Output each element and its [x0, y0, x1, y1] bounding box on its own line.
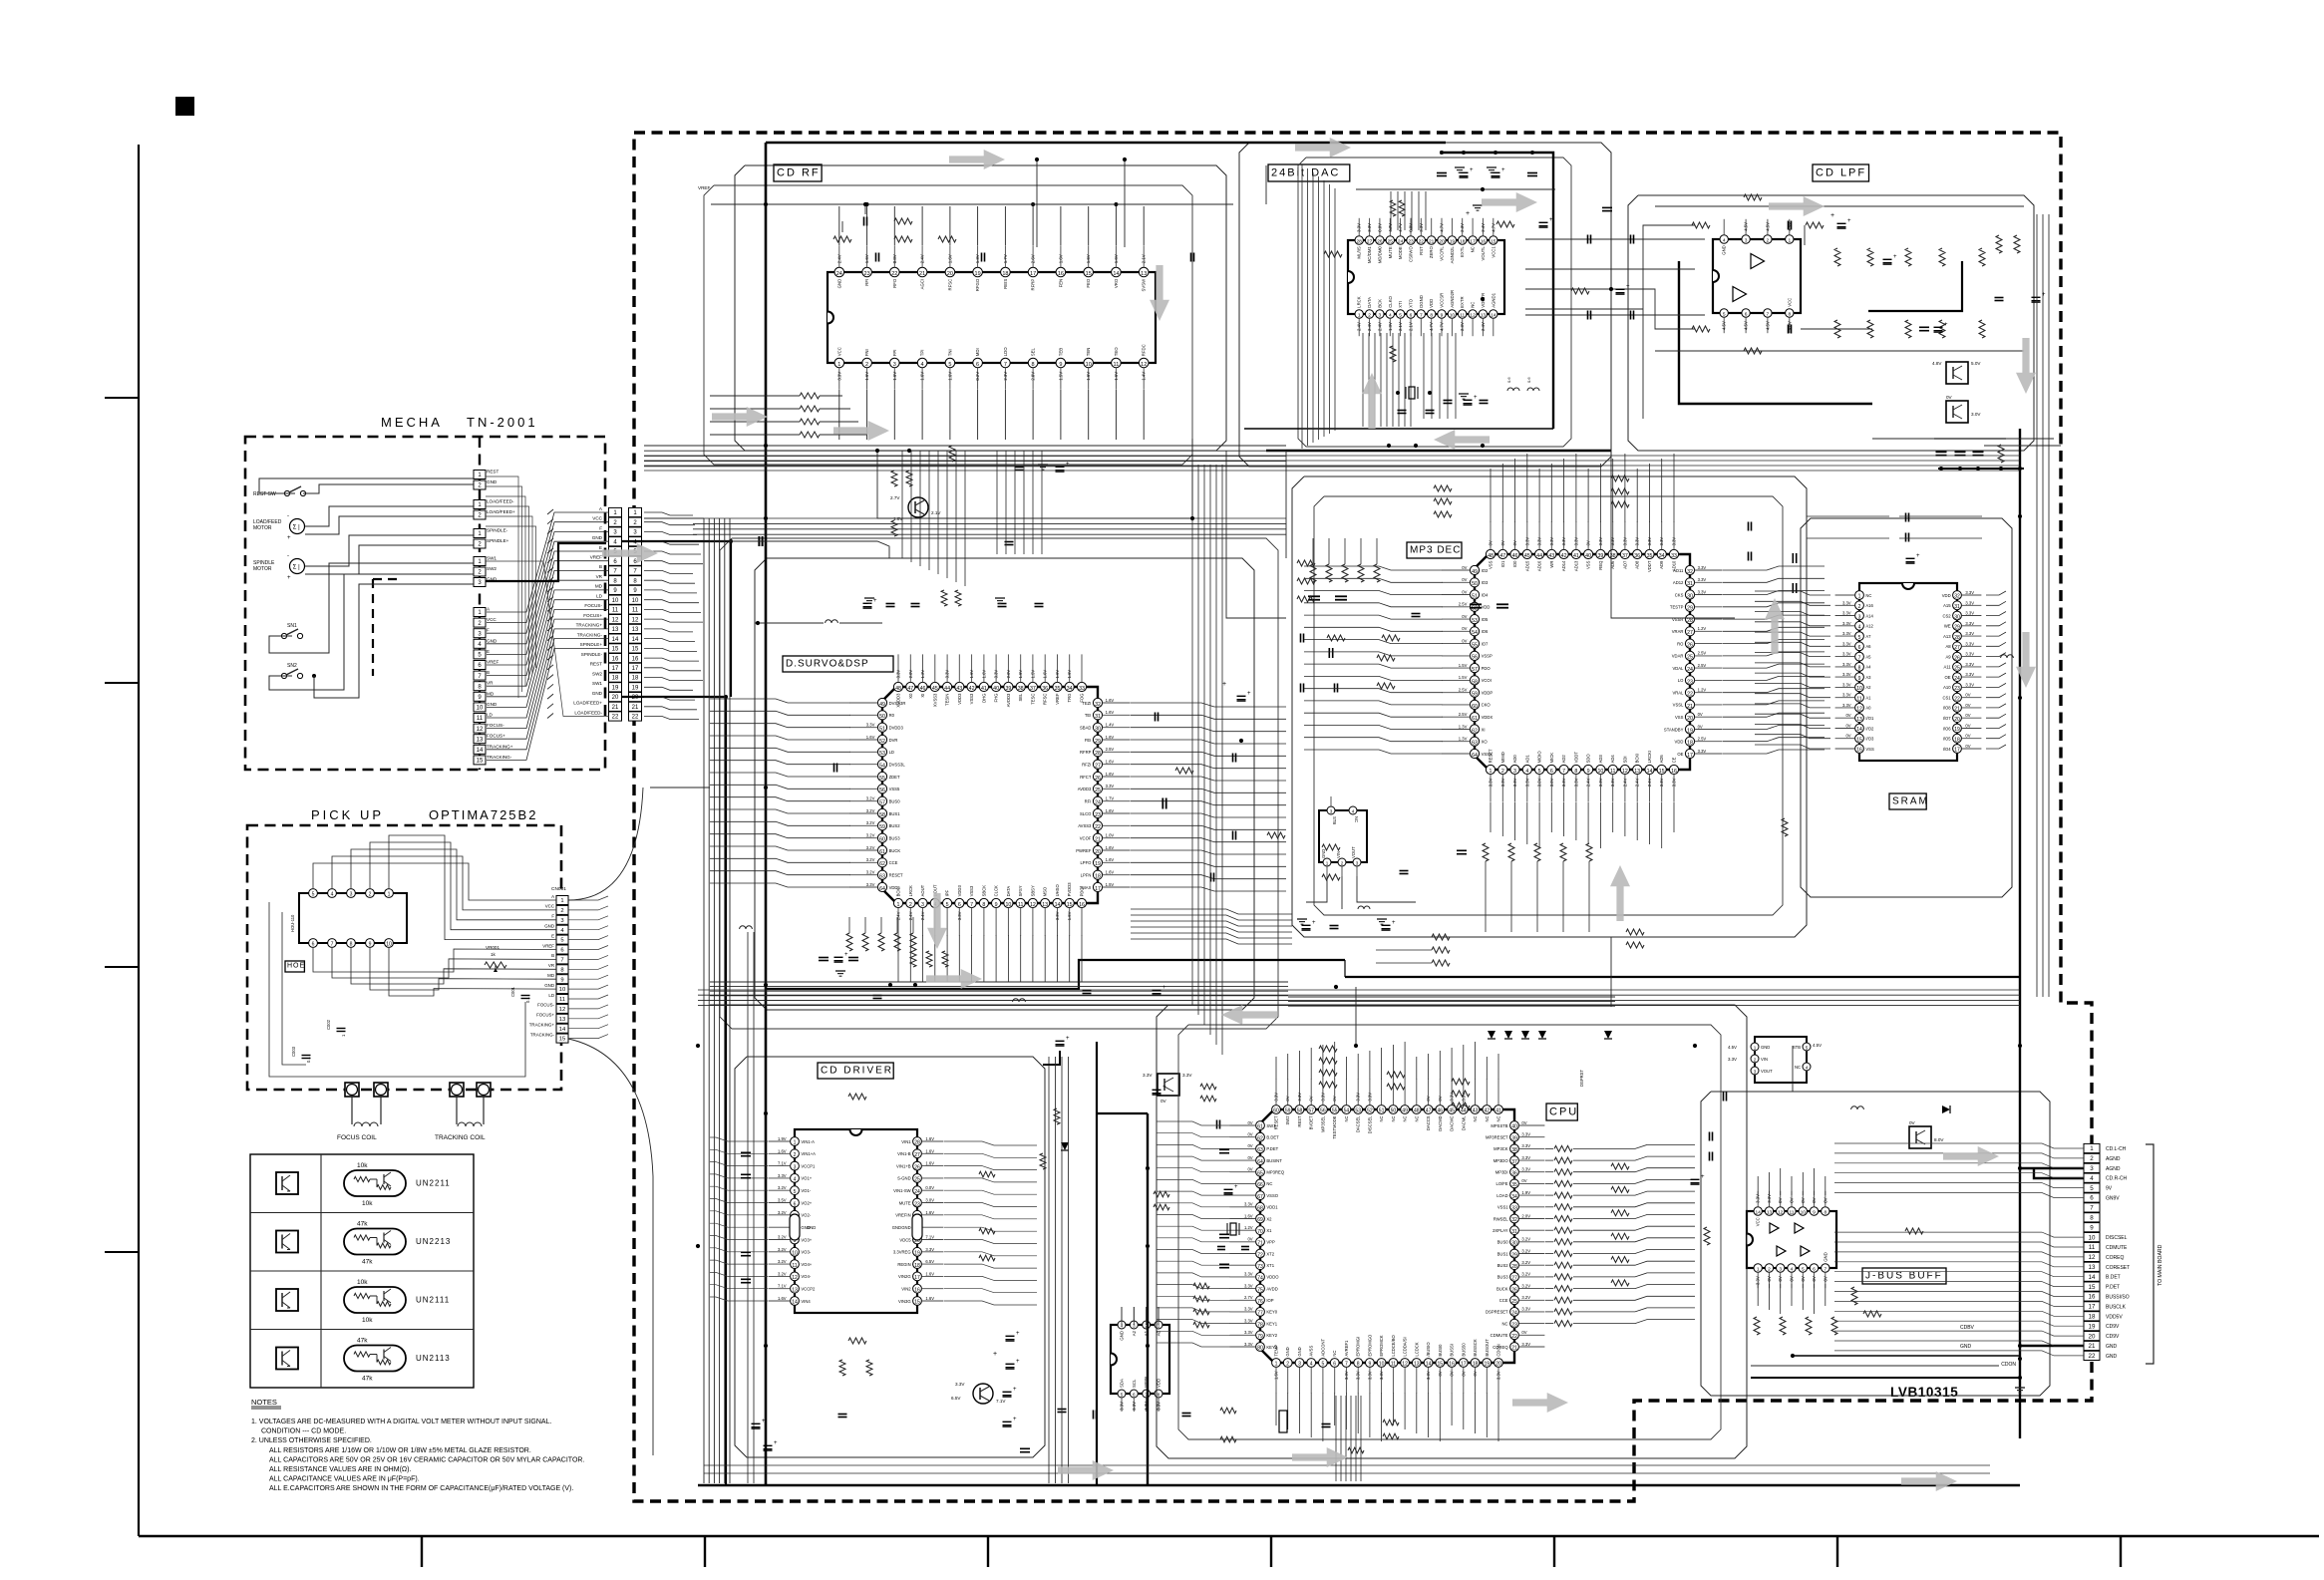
svg-text:49: 49 — [879, 702, 885, 708]
svg-text:KEY1: KEY1 — [1266, 1321, 1277, 1326]
svg-text:CD DRIVER: CD DRIVER — [821, 1066, 893, 1077]
svg-text:0V: 0V — [1698, 712, 1703, 717]
svg-text:VREF: VREF — [542, 943, 554, 948]
svg-text:DISCSEL: DISCSEL — [1367, 1115, 1372, 1134]
svg-text:2.4V: 2.4V — [1481, 322, 1486, 331]
svg-text:2: 2 — [2090, 1155, 2094, 1162]
svg-text:0V: 0V — [1845, 713, 1850, 718]
svg-text:SPINDLE-: SPINDLE- — [487, 528, 508, 533]
svg-text:CDBV: CDBV — [1960, 1325, 1975, 1331]
svg-text:MODE: MODE — [1398, 246, 1403, 259]
svg-text:1.6V: 1.6V — [1106, 870, 1115, 875]
page bottom border tick 6 — [1836, 1536, 1838, 1567]
caps DSP top decoupling — [886, 603, 895, 605]
svg-text:GND: GND — [1120, 1331, 1125, 1341]
svg-text:BUS2: BUS2 — [1497, 1263, 1509, 1268]
svg-text:1.3V: 1.3V — [1388, 322, 1393, 331]
svg-text:11: 11 — [1114, 362, 1120, 368]
svg-text:25: 25 — [1388, 239, 1394, 245]
svg-text:1.3V: 1.3V — [975, 254, 980, 263]
svg-text:60: 60 — [879, 837, 885, 843]
svg-text:VDDT: VDDT — [1573, 752, 1578, 764]
svg-text:10: 10 — [1597, 769, 1603, 775]
svg-text:10: 10 — [612, 598, 619, 604]
passives CPU bottom — [1279, 1411, 1287, 1432]
bold rail DAC frame — [1440, 153, 1553, 429]
svg-text:LOAD/FEED+: LOAD/FEED+ — [487, 509, 515, 514]
svg-text:LD: LD — [487, 713, 494, 718]
svg-text:26: 26 — [914, 1164, 920, 1170]
svg-text:VDD1: VDD1 — [1266, 1205, 1278, 1210]
svg-text:VCC1: VCC1 — [1491, 246, 1495, 258]
svg-text:XVSS3: XVSS3 — [932, 693, 937, 707]
svg-text:I/O8: I/O8 — [1943, 706, 1952, 711]
svg-text:VREF: VREF — [698, 185, 710, 190]
svg-text:3.3V: 3.3V — [1549, 537, 1554, 546]
svg-text:3.3V: 3.3V — [1659, 778, 1664, 787]
svg-text:16: 16 — [1856, 748, 1862, 754]
svg-text:P.DET: P.DET — [2106, 1285, 2120, 1291]
svg-text:43: 43 — [1473, 1108, 1479, 1114]
svg-text:CLCK: CLCK — [994, 885, 999, 896]
svg-text:58: 58 — [879, 812, 885, 818]
svg-text:44: 44 — [1536, 553, 1542, 559]
svg-text:I/O4: I/O4 — [1943, 747, 1952, 752]
svg-text:2.0V: 2.0V — [908, 670, 913, 679]
svg-text:40: 40 — [1511, 1124, 1517, 1130]
svg-text:1.5V: 1.5V — [1018, 670, 1023, 679]
svg-text:VRO: VRO — [1114, 278, 1119, 288]
svg-text:2.4V: 2.4V — [836, 254, 841, 263]
svg-text:AOUT: AOUT — [920, 884, 925, 896]
MECHA connector LOAD/FEED block — [474, 500, 486, 509]
svg-text:3.3V: 3.3V — [1965, 652, 1974, 657]
svg-text:3.2V: 3.2V — [1521, 1295, 1530, 1300]
svg-text:1.9V: 1.9V — [778, 1136, 787, 1141]
bold rail MECHA gnd — [621, 697, 726, 1485]
svg-text:EPROMGO: EPROMGO — [1367, 1334, 1372, 1357]
board edge 22pin connector column — [629, 507, 642, 516]
svg-text:SW2: SW2 — [487, 566, 497, 571]
svg-text:VO3-: VO3- — [801, 1250, 811, 1255]
svg-text:3.0V: 3.0V — [1549, 778, 1554, 787]
passives MP3 left — [1310, 564, 1316, 582]
svg-text:15: 15 — [1086, 271, 1092, 277]
svg-text:22: 22 — [891, 271, 897, 277]
svg-text:B.DET: B.DET — [2106, 1275, 2121, 1281]
svg-text:4: 4 — [1525, 769, 1528, 775]
svg-text:60: 60 — [1472, 704, 1478, 710]
svg-text:20: 20 — [1495, 1362, 1501, 1368]
svg-text:X2: X2 — [1266, 1216, 1272, 1221]
svg-text:17: 17 — [612, 666, 619, 672]
svg-text:13: 13 — [612, 627, 619, 633]
svg-text:3: 3 — [1754, 1070, 1757, 1075]
svg-text:1.6V: 1.6V — [947, 254, 952, 263]
svg-text:MSO: MSO — [1043, 886, 1048, 896]
svg-text:18: 18 — [1460, 239, 1466, 245]
svg-text:15: 15 — [632, 647, 639, 653]
svg-text:XT2: XT2 — [1266, 1251, 1274, 1256]
svg-text:71: 71 — [1257, 1241, 1263, 1247]
svg-text:0V: 0V — [1438, 1096, 1443, 1101]
svg-text:3.3V: 3.3V — [1842, 641, 1851, 646]
svg-text:13: 13 — [2089, 1264, 2096, 1271]
svg-text:VCC: VCC — [836, 347, 841, 356]
table transistor symbol row 2 — [276, 1231, 298, 1253]
svg-text:AVDD3: AVDD3 — [1078, 787, 1092, 791]
svg-text:56: 56 — [1472, 655, 1478, 661]
svg-text:+: + — [1470, 167, 1474, 173]
svg-text:2.7V: 2.7V — [1244, 1295, 1253, 1300]
svg-text:25: 25 — [1954, 666, 1960, 672]
svg-text:MIMD: MIMD — [1500, 752, 1505, 763]
svg-text:3.3V: 3.3V — [1489, 778, 1494, 787]
svg-text:3.3V: 3.3V — [1120, 1402, 1125, 1411]
svg-text:1.6V: 1.6V — [925, 1271, 934, 1276]
svg-text:3.3V: 3.3V — [1512, 778, 1517, 787]
svg-text:MD/DM0: MD/DM0 — [1377, 246, 1382, 264]
svg-text:25: 25 — [1095, 788, 1101, 793]
svg-text:AD3: AD3 — [1598, 755, 1603, 764]
svg-text:7: 7 — [1562, 769, 1565, 775]
svg-text:1.6V: 1.6V — [778, 1148, 787, 1153]
svg-text:27: 27 — [1687, 630, 1693, 636]
svg-text:10: 10 — [1450, 313, 1456, 319]
svg-text:63: 63 — [1472, 741, 1478, 747]
svg-text:XTO: XTO — [1409, 298, 1414, 307]
svg-text:3.3V: 3.3V — [1356, 1371, 1361, 1380]
svg-text:UN2111: UN2111 — [416, 1296, 450, 1305]
svg-text:5: 5 — [1802, 1267, 1805, 1273]
svg-text:Σ❘: Σ❘ — [293, 564, 302, 571]
svg-text:A: A — [551, 894, 554, 899]
svg-text:3.2V: 3.2V — [866, 870, 875, 875]
svg-text:A4: A4 — [1865, 665, 1871, 670]
digital transistor table frame — [250, 1154, 474, 1388]
svg-text:5: 5 — [1399, 313, 1402, 319]
svg-text:1.6V: 1.6V — [864, 372, 869, 381]
svg-text:TESTP: TESTP — [1670, 605, 1684, 610]
inductor DSP bottom-left — [740, 926, 746, 929]
svg-text:3.3V: 3.3V — [778, 1173, 787, 1178]
svg-text:AGND2L: AGND2L — [1450, 246, 1455, 264]
svg-text:18: 18 — [1473, 1362, 1479, 1368]
svg-text:6: 6 — [976, 362, 979, 368]
svg-text:GND: GND — [2106, 1354, 2118, 1360]
svg-text:RFI: RFI — [864, 279, 869, 286]
svg-text:9: 9 — [369, 942, 372, 948]
resistors MP3 top — [1434, 485, 1452, 491]
svg-text:A12: A12 — [1865, 624, 1873, 629]
wire frame CD DRIVER block — [735, 1057, 1045, 1457]
svg-text:64: 64 — [1257, 1159, 1263, 1165]
svg-text:GND: GND — [1761, 1045, 1770, 1050]
svg-text:6: 6 — [1745, 312, 1748, 318]
svg-text:DACML: DACML — [1461, 1115, 1466, 1130]
svg-text:1.6V: 1.6V — [925, 1148, 934, 1153]
svg-text:BUS0: BUS0 — [889, 799, 901, 804]
bold rail CPU left — [1147, 1113, 1149, 1485]
svg-text:GND: GND — [1297, 1347, 1302, 1356]
svg-text:0V: 0V — [1161, 1099, 1167, 1104]
svg-text:11: 11 — [477, 716, 484, 722]
svg-text:+: + — [1466, 210, 1470, 217]
svg-text:VDD: VDD — [1482, 605, 1491, 610]
svg-text:3.3V: 3.3V — [1344, 1371, 1349, 1380]
svg-text:20: 20 — [1095, 849, 1101, 855]
wire frame DSP block — [755, 558, 1254, 1010]
svg-text:J-BUS BUFF: J-BUS BUFF — [1865, 1271, 1943, 1282]
svg-text:47: 47 — [907, 686, 913, 692]
MECHA trunk bundle — [486, 476, 518, 698]
svg-text:0V: 0V — [1285, 1096, 1290, 1101]
svg-text:3: 3 — [1513, 769, 1516, 775]
IC 24Bit DAC — [1348, 240, 1504, 314]
svg-text:I/O7: I/O7 — [1943, 716, 1952, 721]
svg-text:3: 3 — [1779, 1267, 1782, 1273]
SRAM top caps — [1905, 513, 1907, 522]
svg-text:3.3V: 3.3V — [1182, 1073, 1192, 1078]
svg-text:OE: OE — [1677, 752, 1683, 757]
svg-text:53: 53 — [879, 751, 885, 757]
svg-text:1.6V: 1.6V — [1244, 1213, 1253, 1218]
IC CPU (80p QFP) — [1260, 1109, 1514, 1363]
svg-text:VREFIN: VREFIN — [895, 1213, 910, 1218]
svg-text:REGIN: REGIN — [897, 1262, 910, 1267]
svg-text:3.0V: 3.0V — [1971, 412, 1981, 417]
svg-text:DVSS3R: DVSS3R — [889, 701, 906, 706]
svg-text:1.6V: 1.6V — [1067, 911, 1072, 920]
svg-text:NC: NC — [1471, 246, 1476, 252]
svg-text:0V: 0V — [1909, 1120, 1916, 1125]
svg-text:1.5V: 1.5V — [1030, 670, 1035, 679]
svg-text:1.6V: 1.6V — [1058, 254, 1063, 263]
svg-text:3.2V: 3.2V — [778, 1259, 787, 1264]
svg-text:4.7V: 4.7V — [1440, 223, 1445, 232]
SRAM top wires — [1807, 515, 1889, 517]
wires MECHA to board fan — [644, 512, 693, 515]
svg-text:1.5V: 1.5V — [1459, 675, 1468, 680]
svg-text:AGND: AGND — [2106, 1156, 2121, 1162]
svg-text:37: 37 — [1622, 553, 1628, 559]
svg-text:5: 5 — [946, 902, 949, 908]
svg-text:Σ❘: Σ❘ — [293, 524, 302, 531]
svg-text:16: 16 — [1449, 1362, 1455, 1368]
svg-text:10: 10 — [792, 1251, 798, 1257]
svg-text:VR: VR — [596, 574, 603, 579]
MECHA dashed box — [245, 437, 605, 770]
svg-text:1: 1 — [388, 892, 391, 898]
svg-text:17: 17 — [914, 1275, 920, 1281]
svg-text:SBCK: SBCK — [981, 885, 986, 897]
svg-text:BUS2: BUS2 — [889, 823, 901, 828]
table digital transistor row 3 UN2111 — [344, 1287, 406, 1313]
wire frame MP3 block — [1292, 476, 1807, 937]
svg-text:2.5V: 2.5V — [1459, 602, 1468, 607]
svg-text:3.3V: 3.3V — [1244, 1272, 1253, 1277]
svg-text:-: - — [287, 553, 289, 559]
svg-text:22: 22 — [1419, 239, 1425, 245]
svg-text:57: 57 — [879, 800, 885, 806]
svg-text:19: 19 — [1095, 861, 1101, 867]
svg-text:GND: GND — [892, 1225, 901, 1230]
svg-text:1.6V: 1.6V — [1086, 372, 1091, 381]
svg-text:21: 21 — [1954, 707, 1960, 713]
svg-text:3.3V: 3.3V — [1672, 537, 1677, 546]
svg-text:GN9V: GN9V — [2106, 1196, 2120, 1202]
svg-text:OE: OE — [1945, 675, 1951, 680]
svg-text:15: 15 — [1659, 769, 1665, 775]
svg-text:3.3V: 3.3V — [1537, 537, 1542, 546]
svg-text:55: 55 — [1472, 643, 1478, 649]
svg-text:A2: A2 — [1132, 1330, 1137, 1336]
svg-text:3.3V: 3.3V — [1598, 778, 1603, 787]
svg-text:FOCUS-: FOCUS- — [537, 1003, 554, 1008]
svg-text:3.3V: 3.3V — [1965, 621, 1974, 626]
svg-text:6: 6 — [560, 948, 563, 954]
svg-text:FOCUS+: FOCUS+ — [487, 734, 505, 739]
svg-text:29: 29 — [1095, 739, 1101, 745]
svg-text:0V: 0V — [1845, 724, 1850, 729]
svg-text:4.5V: 4.5V — [1722, 321, 1727, 330]
svg-text:TESTMODE: TESTMODE — [1332, 1115, 1337, 1138]
svg-text:8: 8 — [1032, 362, 1035, 368]
svg-text:33: 33 — [1079, 686, 1085, 692]
table digital transistor row 2 UN2213 — [344, 1229, 406, 1255]
svg-text:CORESET: CORESET — [2106, 1265, 2130, 1271]
svg-text:AD1: AD1 — [1524, 755, 1529, 764]
svg-text:B: B — [551, 953, 554, 958]
svg-text:29: 29 — [1511, 1252, 1517, 1258]
svg-text:HOU-110: HOU-110 — [290, 914, 295, 932]
wires DSP left fan — [710, 699, 850, 703]
svg-text:STANDBY: STANDBY — [1664, 727, 1684, 732]
resistors CPU left rows — [1200, 1084, 1216, 1090]
svg-text:KEY3: KEY3 — [1266, 1345, 1277, 1350]
svg-text:MP3DO: MP3DO — [1494, 1158, 1509, 1163]
svg-text:CDON: CDON — [2001, 1362, 2016, 1368]
svg-text:3: 3 — [921, 902, 924, 908]
svg-text:24: 24 — [914, 1189, 920, 1195]
page left border tick 3 — [105, 966, 139, 968]
svg-text:2.4V: 2.4V — [1635, 778, 1640, 787]
svg-text:13: 13 — [1042, 902, 1048, 908]
svg-text:VDD5V: VDD5V — [2106, 1314, 2123, 1320]
svg-text:WR: WR — [1549, 561, 1554, 568]
svg-text:50: 50 — [1472, 581, 1478, 587]
MECHA 22pin connector column — [609, 507, 622, 516]
svg-text:10: 10 — [1856, 686, 1862, 692]
svg-text:26: 26 — [1511, 1287, 1517, 1293]
svg-text:VDD: VDD — [1429, 299, 1434, 308]
svg-text:0V: 0V — [1462, 589, 1467, 594]
svg-text:TEN: TEN — [1086, 348, 1091, 357]
svg-text:IPF: IPF — [945, 889, 950, 896]
gray flow arrows — [949, 150, 1005, 169]
svg-text:67: 67 — [1257, 1194, 1263, 1200]
CD LPF wires — [1643, 225, 1695, 419]
bold rail DAC bottom — [1266, 450, 1611, 453]
wires MP3 left fan — [1304, 566, 1443, 570]
svg-text:LCDCE/BO: LCDCE/BO — [1391, 1334, 1396, 1356]
svg-text:5.0V: 5.0V — [1971, 361, 1981, 366]
caps CPU bottom area — [1020, 1447, 1030, 1449]
svg-text:59: 59 — [1285, 1108, 1291, 1114]
svg-text:10: 10 — [559, 987, 565, 993]
svg-text:MP3CK: MP3CK — [1494, 1146, 1508, 1151]
wire bus above bottom rail — [704, 1464, 1990, 1466]
svg-text:24Bit DAC: 24Bit DAC — [1271, 167, 1340, 179]
svg-text:3.2V: 3.2V — [866, 808, 875, 813]
svg-text:TRACKING COIL: TRACKING COIL — [435, 1134, 486, 1141]
svg-text:2.5V: 2.5V — [1459, 712, 1468, 717]
bold rail bottom — [698, 1484, 2020, 1487]
wires CD RF pin extensions — [838, 206, 840, 245]
svg-text:3.3V: 3.3V — [1450, 1093, 1455, 1102]
svg-text:VO2+: VO2+ — [801, 1200, 812, 1205]
svg-text:8: 8 — [982, 902, 985, 908]
svg-text:VIN: VIN — [1761, 1057, 1768, 1062]
svg-text:21: 21 — [2089, 1343, 2096, 1350]
svg-text:NC: NC — [1344, 1115, 1349, 1121]
svg-text:0V: 0V — [1462, 614, 1467, 619]
svg-text:DSPRESET: DSPRESET — [1486, 1310, 1508, 1315]
svg-text:FEN: FEN — [1058, 279, 1063, 288]
right edge ladder — [1996, 235, 2002, 253]
DAC crystal and caps — [1409, 387, 1415, 399]
svg-text:A5: A5 — [1865, 654, 1871, 659]
svg-text:4.7V: 4.7V — [1440, 322, 1445, 331]
svg-text:3.3V: 3.3V — [1659, 537, 1664, 546]
svg-text:LCDCK: LCDCK — [1414, 1342, 1419, 1356]
svg-text:0V: 0V — [1521, 1178, 1526, 1183]
svg-text:CDMUTE: CDMUTE — [1491, 1333, 1508, 1338]
svg-text:0V: 0V — [1812, 1197, 1817, 1202]
svg-text:19: 19 — [632, 686, 639, 692]
svg-text:MD: MD — [547, 973, 554, 978]
svg-text:VCC: VCC — [545, 904, 554, 909]
svg-text:RFO: RFO — [892, 278, 897, 288]
svg-text:3: 3 — [1745, 238, 1748, 244]
passives MP3 right — [1748, 522, 1750, 531]
svg-text:73: 73 — [1257, 1264, 1263, 1270]
svg-text:LOAD/FEED+: LOAD/FEED+ — [573, 701, 602, 706]
svg-text:0V: 0V — [1965, 724, 1970, 729]
svg-text:EPROMGI: EPROMGI — [1356, 1337, 1361, 1357]
svg-text:MUTE: MUTE — [899, 1200, 911, 1205]
svg-text:3.3V: 3.3V — [1842, 672, 1851, 677]
svg-text:DISCSEL: DISCSEL — [2106, 1235, 2128, 1241]
svg-text:2.5V: 2.5V — [1459, 688, 1468, 693]
bold rail MP3 bottom — [1345, 976, 2020, 978]
svg-text:0.6: 0.6 — [1506, 377, 1511, 383]
svg-text:1.6V: 1.6V — [1055, 670, 1060, 679]
svg-text:BUCK: BUCK — [889, 848, 901, 853]
svg-text:IOP: IOP — [1266, 1298, 1273, 1303]
svg-text:1.6V: 1.6V — [1106, 735, 1115, 740]
wire bus below DSP — [710, 981, 1288, 983]
svg-text:23: 23 — [1687, 679, 1693, 685]
svg-text:CD.L-CH: CD.L-CH — [2106, 1146, 2127, 1152]
svg-text:1.6V: 1.6V — [1106, 772, 1115, 777]
resistor bank CPU right — [1554, 1145, 1572, 1151]
junction dots — [764, 202, 768, 206]
svg-text:14: 14 — [1055, 902, 1061, 908]
svg-text:SVSW: SVSW — [1142, 278, 1147, 292]
svg-text:+: + — [1066, 1036, 1070, 1042]
page left border line — [138, 145, 140, 1536]
